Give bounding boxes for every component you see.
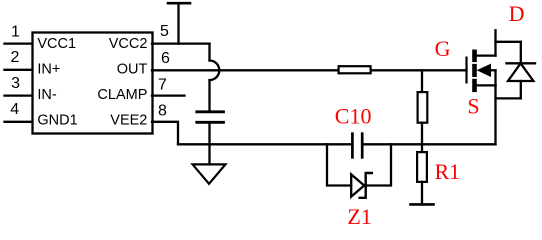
svg-text:D: D <box>509 1 525 26</box>
label C10 <box>335 103 372 128</box>
pin 8 number <box>158 103 167 120</box>
svg-text:VCC1: VCC1 <box>37 36 76 52</box>
VCC2 supply bar <box>168 3 190 43</box>
svg-text:R1: R1 <box>435 159 461 184</box>
pin 2 number <box>11 49 20 66</box>
svg-text:5: 5 <box>160 23 169 40</box>
wire drain to diode <box>496 41 521 43</box>
resistor R1 <box>417 152 427 182</box>
body diode <box>507 42 536 99</box>
wire drain <box>475 30 496 55</box>
pin 5 number <box>160 23 169 40</box>
capacitor C10 <box>352 134 362 158</box>
pin 1 number <box>11 23 20 40</box>
svg-text:GND1: GND1 <box>37 113 77 129</box>
pin 7 stub wire <box>152 94 185 96</box>
svg-text:S: S <box>467 93 479 118</box>
wire diode anode to source <box>496 97 521 99</box>
pin 6 number <box>161 50 170 67</box>
pin 4 wire <box>5 121 33 123</box>
IC label OUT <box>117 62 148 78</box>
pin 8 wire <box>152 122 178 145</box>
wire source <box>475 85 496 144</box>
svg-text:1: 1 <box>11 23 20 40</box>
wire VEE2 rail left segment <box>178 143 352 145</box>
svg-text:VEE2: VEE2 <box>110 113 147 129</box>
label G <box>435 36 451 61</box>
resistor (series gate, horizontal, unlabeled) <box>339 66 371 73</box>
zener diode Z1 <box>351 173 372 198</box>
svg-text:CLAMP: CLAMP <box>97 87 147 103</box>
IC label GND1 <box>37 113 77 129</box>
wire zener branch left <box>327 144 351 185</box>
pin 6 OUT wire <box>152 69 338 71</box>
svg-text:4: 4 <box>10 101 19 118</box>
wire gate resistor top <box>421 70 423 92</box>
transistor Q1 body arrow <box>477 64 496 86</box>
svg-text:6: 6 <box>161 50 170 67</box>
svg-text:7: 7 <box>158 76 167 93</box>
svg-text:VCC2: VCC2 <box>109 36 148 52</box>
IC label VEE2 <box>110 113 147 129</box>
wire VCC2 down with hop over OUT <box>210 44 220 111</box>
wire zener branch right <box>366 144 391 185</box>
wire resistor to gate <box>372 69 467 71</box>
IC label IN- <box>37 87 57 103</box>
pin 7 number <box>158 76 167 93</box>
resistor (gate-source, unlabeled) <box>418 92 428 123</box>
pin 1 wire <box>5 42 33 44</box>
svg-text:C10: C10 <box>335 103 372 128</box>
svg-text:G: G <box>435 36 451 61</box>
transistor Q1 gate plate <box>465 58 467 83</box>
capacitor C (VCC2 decoupling) <box>197 112 224 123</box>
svg-text:IN+: IN+ <box>37 62 60 78</box>
IC label IN+ <box>37 62 60 78</box>
pin 2 wire <box>5 69 33 71</box>
IC label CLAMP <box>97 87 147 103</box>
transistor Q1 channel bars <box>472 52 477 90</box>
wire VEE2 rail right segment <box>362 143 495 145</box>
pin 4 number <box>10 101 19 118</box>
pin 3 number <box>11 75 20 92</box>
label R1 <box>435 159 461 184</box>
svg-text:IN-: IN- <box>37 87 57 103</box>
pin 3 wire <box>5 94 33 96</box>
label S <box>467 93 479 118</box>
ground triangle <box>193 164 226 183</box>
wire cap to ground <box>208 122 210 164</box>
svg-text:Z1: Z1 <box>347 204 371 229</box>
svg-text:2: 2 <box>11 49 20 66</box>
ground bar under R1 <box>411 203 434 206</box>
pin 5 wire <box>152 42 210 44</box>
svg-text:3: 3 <box>11 75 20 92</box>
label D <box>509 1 525 26</box>
wire R1 top <box>421 144 423 152</box>
wire gate resistor bottom <box>421 123 423 145</box>
svg-text:8: 8 <box>158 103 167 120</box>
IC U1 body <box>33 33 153 134</box>
wire R1 bottom <box>421 182 423 205</box>
IC label VCC1 <box>37 36 76 52</box>
IC label VCC2 <box>109 36 148 52</box>
label Z1 <box>347 204 371 229</box>
svg-text:OUT: OUT <box>117 62 148 78</box>
